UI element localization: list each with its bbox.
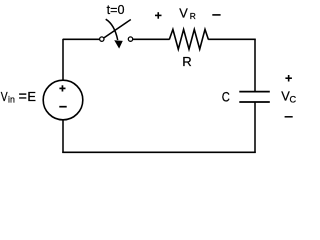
switch closing arc [106,19,118,40]
wire resistor-to-corner [208,38,256,40]
svg-text:=: = [19,89,27,105]
wire left vertical lower [62,120,64,153]
svg-text:C: C [222,89,230,104]
voltage source minus sign [59,106,66,108]
switch right terminal [128,37,132,41]
wire right vertical lower [254,102,256,153]
voltage source plus sign [59,85,65,91]
label plus above V_C [285,75,292,82]
label minus right of V_R [212,14,220,16]
label minus below V_C [285,116,293,118]
svg-text:t=0: t=0 [107,3,125,17]
resistor R zigzag [169,29,208,49]
wire switch-to-resistor [133,38,170,40]
svg-text:in: in [8,94,15,104]
wire right vertical upper [254,39,256,92]
switch blade [104,20,131,38]
svg-text:E: E [27,89,36,104]
svg-text:R: R [190,11,196,21]
voltage source V_in circle [43,80,83,120]
switch arrowhead [115,41,123,48]
wire top-left horizontal [63,38,99,40]
wire bottom horizontal [62,151,255,153]
wire left vertical upper [62,39,64,80]
capacitor C bottom plate [239,101,269,103]
svg-text:R: R [182,54,191,69]
svg-text:V: V [179,6,188,21]
svg-text:C: C [290,94,297,104]
switch left terminal [100,37,104,41]
capacitor C top plate [239,91,269,93]
label plus left of V_R [155,12,162,19]
